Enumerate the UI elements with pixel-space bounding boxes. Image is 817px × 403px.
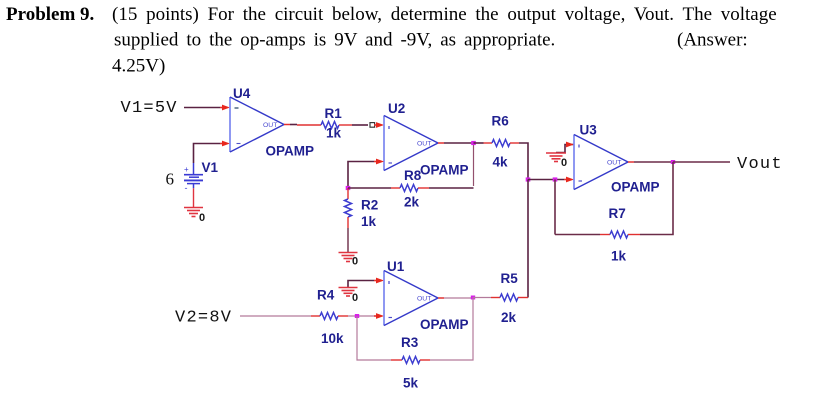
wire R2 to ground xyxy=(347,228,349,252)
svg-text:0: 0 xyxy=(199,212,205,224)
wire to Vout label xyxy=(673,161,730,163)
problem statement text xyxy=(6,4,777,77)
resistor R6 4k xyxy=(474,114,520,170)
svg-text:4.25V): 4.25V) xyxy=(112,56,165,77)
svg-text:OUT: OUT xyxy=(607,160,621,167)
node junction at column/U3 input xyxy=(526,177,531,181)
node junction for R7 feedback xyxy=(553,177,558,181)
svg-text:2k: 2k xyxy=(404,195,420,210)
svg-text:OUT: OUT xyxy=(263,122,277,129)
wire U3 + input to ground xyxy=(556,145,574,153)
svg-text:U4: U4 xyxy=(233,86,251,101)
resistor R2 1k (vertical) xyxy=(345,188,379,229)
svg-text:OPAMP: OPAMP xyxy=(266,144,315,159)
wire R1 to U2 + input, with port square xyxy=(352,122,384,128)
svg-text:OPAMP: OPAMP xyxy=(420,317,469,332)
op-amp U3 xyxy=(574,123,660,195)
svg-text:R3: R3 xyxy=(401,335,419,350)
svg-text:5k: 5k xyxy=(403,376,419,391)
wire R8 to U2 output node xyxy=(429,187,474,189)
ground 0 at U3 + input xyxy=(546,153,567,169)
svg-text:10k: 10k xyxy=(321,331,344,346)
svg-text:U1: U1 xyxy=(387,259,405,274)
op-amp U2 xyxy=(384,101,469,178)
svg-text:U2: U2 xyxy=(388,101,405,116)
resistor R1 1k xyxy=(297,106,352,141)
wire U1 output to node xyxy=(438,297,473,299)
node junction at R2/R8 xyxy=(346,186,351,190)
svg-text:0: 0 xyxy=(352,292,358,304)
svg-text:R5: R5 xyxy=(501,271,519,286)
svg-text:0: 0 xyxy=(352,256,358,268)
ground 0 under R2 xyxy=(339,253,359,268)
resistor R5 2k xyxy=(473,271,528,325)
svg-text:1k: 1k xyxy=(326,126,342,141)
svg-text:supplied to the op-amps is 9V: supplied to the op-amps is 9V and -9V, a… xyxy=(114,30,555,51)
svg-text:OPAMP: OPAMP xyxy=(420,163,469,178)
svg-text:Problem 9.: Problem 9. xyxy=(6,4,94,25)
node junction U3 output xyxy=(671,160,675,164)
svg-text:1k: 1k xyxy=(611,249,627,264)
svg-text:V1: V1 xyxy=(202,160,219,175)
wire R6 to U3 input column xyxy=(519,143,528,180)
svg-text:OUT: OUT xyxy=(417,296,431,303)
resistor R7 1k (feedback of U3) xyxy=(555,162,673,264)
wire battery to ground xyxy=(193,188,195,207)
svg-text:(15 points) For the circuit be: (15 points) For the circuit below, deter… xyxy=(112,4,777,25)
svg-text:R7: R7 xyxy=(609,206,626,221)
svg-text:+: + xyxy=(184,165,189,174)
wire U1 + input to ground xyxy=(348,278,384,287)
wire node to U3 inverting input xyxy=(528,177,574,183)
wire from V1=5V to U4 inverting input xyxy=(184,105,230,111)
arrow into U3 + input xyxy=(566,142,574,148)
svg-text:2k: 2k xyxy=(501,310,517,325)
wire U2 output to node xyxy=(438,142,474,144)
resistor R8 2k (feedback of U2) xyxy=(348,168,429,210)
wire U4 output to R1 xyxy=(284,124,297,126)
svg-text:R8: R8 xyxy=(404,168,422,183)
svg-text:OPAMP: OPAMP xyxy=(611,180,660,195)
wire V2 to R4 xyxy=(240,315,311,317)
wire U3 output to Vout xyxy=(628,161,673,163)
node junction U1 output xyxy=(471,296,475,300)
svg-text:R4: R4 xyxy=(317,288,335,303)
svg-text:(Answer:: (Answer: xyxy=(677,30,748,51)
resistor R4 10k xyxy=(311,288,348,347)
svg-text:6: 6 xyxy=(166,170,175,189)
svg-text:0: 0 xyxy=(561,157,567,169)
battery source V1 (6V) xyxy=(166,160,219,193)
svg-text:4k: 4k xyxy=(493,155,509,170)
svg-text:1k: 1k xyxy=(361,214,377,229)
svg-text:Vout: Vout xyxy=(737,155,783,174)
ground 0 at U1 + input xyxy=(339,288,359,305)
svg-text:U3: U3 xyxy=(580,123,598,138)
svg-text:V1=5V: V1=5V xyxy=(121,99,178,118)
node junction at R4/U1 input xyxy=(355,314,359,318)
wire R4 to U1 inverting input xyxy=(348,313,384,319)
svg-text:V2=8V: V2=8V xyxy=(175,309,232,328)
wire from battery V1 to U4 non-inverting input xyxy=(194,141,231,163)
node junction U2 output xyxy=(471,141,476,145)
wire column down to R5 xyxy=(527,180,529,298)
svg-text:-: - xyxy=(185,183,188,193)
op-amp U1 xyxy=(384,259,469,332)
ground 0 under V1 xyxy=(184,208,205,225)
resistor R3 5k (feedback of U1) xyxy=(357,298,473,391)
svg-text:R6: R6 xyxy=(492,114,510,129)
svg-text:R1: R1 xyxy=(325,106,343,121)
op-amp U4 xyxy=(230,86,314,159)
svg-text:R2: R2 xyxy=(361,198,378,213)
svg-text:OUT: OUT xyxy=(417,141,431,148)
wire to U2 inverting input from R2/R8 node xyxy=(348,159,384,188)
